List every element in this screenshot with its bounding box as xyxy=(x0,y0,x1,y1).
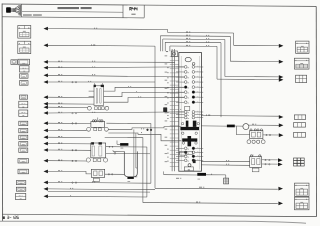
arrow wire L12 xyxy=(44,135,48,139)
connector R3 xyxy=(296,75,307,82)
wire xyxy=(48,160,86,162)
arrow wire L18 xyxy=(44,187,48,191)
wire N to rheostat top xyxy=(113,150,124,152)
arrow wire L4 xyxy=(44,66,48,70)
meter dark pin blob xyxy=(193,160,196,163)
meter sub-box 2b xyxy=(187,151,193,154)
wire splice dots xyxy=(72,182,73,183)
connector R7 (dark grid) xyxy=(294,158,305,166)
meter pin row 71 xyxy=(167,71,203,74)
bus ticks xyxy=(165,55,179,166)
connector R6 xyxy=(294,133,306,138)
connector R5 xyxy=(294,123,306,128)
arrow wire L8 xyxy=(44,102,48,106)
bottom wire A xyxy=(154,46,156,188)
relay A (tall) xyxy=(94,83,104,105)
gauge cross 2 xyxy=(182,136,197,146)
connector L5 xyxy=(20,74,29,78)
connector L14 xyxy=(19,148,28,152)
meter sub-box 2a xyxy=(180,151,186,155)
connector R4 xyxy=(294,115,305,119)
drop to harness stub xyxy=(225,175,227,178)
wire top B xyxy=(48,44,155,47)
arrow wire L5 xyxy=(44,74,48,78)
wire top A xyxy=(48,28,168,31)
connector L11 xyxy=(19,128,28,132)
vertical drop to lower wire xyxy=(235,126,237,135)
wire with fuse black bar xyxy=(201,125,227,127)
meter top circle xyxy=(185,57,191,61)
meter pin row 92 xyxy=(167,91,203,94)
connector L6 xyxy=(20,81,29,86)
connector L4 xyxy=(20,66,30,72)
header code R44 xyxy=(130,7,132,10)
arrow wire L2 xyxy=(44,44,48,48)
arrow wire L15 xyxy=(44,159,48,163)
connector L3b xyxy=(11,60,17,65)
frame right xyxy=(315,6,317,216)
connector L13 xyxy=(19,142,28,146)
wire S row xyxy=(48,195,147,198)
meter pin row 87 xyxy=(167,86,203,89)
wire xyxy=(48,136,91,138)
wire xyxy=(48,96,94,98)
header band xyxy=(2,17,144,18)
wire xyxy=(48,112,184,113)
connector L17 xyxy=(16,181,26,185)
relay A left stubs xyxy=(89,91,94,97)
wire to relay E xyxy=(236,134,249,136)
arrow wire L11 xyxy=(44,129,48,133)
connector L12 xyxy=(19,135,28,139)
connector R8 xyxy=(295,183,310,196)
arrow wire L1 xyxy=(44,27,48,31)
connector L16 xyxy=(18,169,29,174)
meter pin row 82 xyxy=(167,81,203,84)
wire R row pair xyxy=(48,188,155,191)
nest wire y39 xyxy=(163,38,225,77)
connector R9 xyxy=(295,197,310,210)
page left edge xyxy=(1,4,4,222)
connector L3 xyxy=(18,59,30,65)
arrow wire L9 xyxy=(44,111,48,115)
arrow wire L13 xyxy=(44,142,48,146)
wire xyxy=(48,66,184,69)
relay F (right lower) xyxy=(250,155,262,172)
wire splice dots xyxy=(72,123,73,124)
black bar component 2 (rheostat base) xyxy=(127,177,133,179)
nest wire to arrow 1 xyxy=(234,44,279,46)
connector L19 xyxy=(16,193,26,199)
arrow wire L7 xyxy=(44,95,48,99)
arrow wire L6 xyxy=(44,80,48,84)
wire splice dots xyxy=(72,160,73,161)
connector L2 xyxy=(18,41,31,53)
wire P into relay D xyxy=(48,171,91,174)
meter bus xyxy=(171,49,173,171)
dark connector on wire I xyxy=(163,107,167,112)
wire xyxy=(48,103,94,105)
connector R1 xyxy=(296,41,309,53)
relay D (small) xyxy=(91,169,104,181)
black bar component 3 xyxy=(197,173,206,176)
nest wires to double arrow xyxy=(225,76,279,78)
header title INSTRUMENT PANEL xyxy=(58,7,80,9)
bottom nest vertical 2 xyxy=(146,147,148,197)
relay A terminals xyxy=(88,106,109,110)
connector L1 xyxy=(18,26,31,39)
splice dots wire K path xyxy=(147,129,149,131)
connector L15 xyxy=(18,159,29,163)
mid verticals xyxy=(133,129,135,177)
meter top-left sub box xyxy=(171,51,177,57)
wire splice dots xyxy=(72,113,73,114)
wire splice dots xyxy=(72,82,73,83)
rheostat rounded box xyxy=(124,151,137,176)
relay A output wires xyxy=(104,87,185,91)
wire xyxy=(48,61,175,63)
wire splice dots xyxy=(72,150,73,151)
meter pin row 66 xyxy=(167,66,203,69)
wire xyxy=(48,75,184,77)
relay F wires to double arrow xyxy=(262,159,278,161)
meter pin row 111 xyxy=(167,111,203,114)
footer page number xyxy=(3,216,5,219)
frame bottom xyxy=(2,214,317,216)
nest wire y46 xyxy=(170,45,217,79)
wire xyxy=(48,129,87,131)
wire xyxy=(48,149,91,151)
nest wire y42 xyxy=(165,41,221,117)
nest wire y35 xyxy=(160,35,230,61)
combination meter block xyxy=(179,53,202,172)
meter pin row 148 xyxy=(167,147,203,150)
header icon xyxy=(6,5,20,16)
meter pin row 117 xyxy=(167,116,203,119)
block bottom wire xyxy=(164,174,198,176)
relay B xyxy=(91,118,105,128)
meter sub-box fuel xyxy=(185,106,190,110)
page bottom shadow xyxy=(0,221,306,223)
arrow wire L3 xyxy=(44,60,48,64)
connector L9 xyxy=(19,110,28,116)
arrow wire L14 xyxy=(44,148,48,152)
harness stub box xyxy=(224,178,229,184)
wire F over relay A xyxy=(48,81,155,83)
arrow wire L8 xyxy=(44,105,48,109)
frame top xyxy=(2,4,316,6)
black bar component 1 xyxy=(120,143,128,146)
connector L7 xyxy=(20,95,28,99)
lower right cluster wires from block xyxy=(201,160,249,162)
meter pin row 160 xyxy=(167,159,203,162)
wire S16 xyxy=(201,115,279,118)
splice circle xyxy=(243,124,249,130)
relay C output wires xyxy=(106,146,147,148)
meter pin row 152 xyxy=(167,151,203,154)
wire xyxy=(48,181,151,184)
wire relay E to arrow xyxy=(263,134,279,136)
wire xyxy=(48,143,91,145)
meter pin row 156 xyxy=(167,155,203,158)
gauge cross 1 xyxy=(180,121,199,135)
arrow wire L16 xyxy=(44,170,48,174)
relay C xyxy=(91,142,106,158)
wire xyxy=(48,106,88,108)
connector L8 xyxy=(19,101,28,108)
meter sub-box 3 xyxy=(184,167,193,171)
arrow wire L17 xyxy=(44,181,48,185)
meter lamp circle xyxy=(188,164,191,167)
arrow wire L10 xyxy=(44,121,48,125)
connector L10 xyxy=(19,121,28,125)
nest wire to arrow 2 xyxy=(230,60,278,62)
nest wire 1 (from wire A) xyxy=(168,31,234,45)
relay E terminal circles xyxy=(247,140,265,144)
relay B output wires xyxy=(106,122,150,124)
bottom nest vertical 1 xyxy=(142,138,144,203)
meter pin row 97 xyxy=(167,96,203,99)
bottom wire B xyxy=(143,203,278,204)
meter pin row 102 xyxy=(167,101,203,104)
meter pin row 77 xyxy=(167,76,203,79)
wire xyxy=(48,122,91,124)
relay C terminals xyxy=(86,158,107,162)
relay D wire to rheostat xyxy=(105,173,125,175)
relay B terminals xyxy=(87,127,109,131)
connector R2 xyxy=(294,58,309,69)
relay E (right mid) xyxy=(250,129,263,139)
connector L18 xyxy=(16,187,26,191)
meter pin row 114 xyxy=(167,113,203,116)
arrow wire L19 xyxy=(44,195,48,199)
